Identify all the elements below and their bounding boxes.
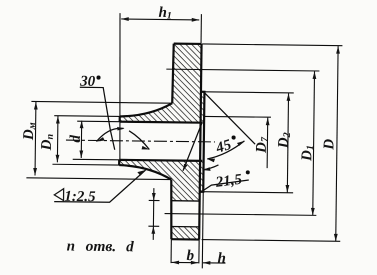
weld end face — [118, 116, 121, 165]
svg-text:30: 30 — [79, 74, 96, 90]
taper leader — [54, 169, 145, 203]
h1 left extension — [118, 13, 122, 162]
Dn top extension — [54, 115, 119, 118]
21.5 cone line — [183, 123, 202, 171]
D dim line — [336, 46, 338, 241]
d top extension — [77, 120, 119, 123]
plate top — [174, 43, 202, 46]
hub taper lower — [119, 165, 171, 180]
boss top extension — [204, 92, 293, 93]
flange section hatched body — [118, 43, 205, 240]
45 arc — [207, 140, 244, 159]
21.5 arc arrow — [202, 167, 210, 171]
b arrows — [172, 261, 180, 265]
thin lines — [25, 12, 343, 270]
h1 right extension — [200, 14, 202, 44]
svg-text:d: d — [68, 135, 84, 143]
D1 dim line — [313, 71, 315, 215]
b dim line — [172, 261, 199, 263]
h arrow — [203, 261, 211, 265]
plate bottom — [171, 238, 199, 241]
D top extension — [202, 44, 342, 46]
30 angle arc A1 — [96, 128, 123, 142]
arrowheads — [32, 16, 340, 266]
45 arc arrows — [207, 159, 215, 163]
boss bottom extension — [202, 192, 293, 193]
Dm dim line — [34, 102, 37, 175]
D2 dim line — [287, 93, 288, 192]
bolt hole top edge — [172, 200, 200, 202]
bolt hole bottom edge — [172, 226, 200, 228]
centerline — [66, 140, 215, 142]
Dn dim line — [56, 116, 59, 162]
d arrows — [80, 121, 84, 129]
d bottom extension — [73, 158, 119, 161]
d dim line — [80, 121, 82, 158]
30 leader — [79, 87, 115, 149]
svg-text:n: n — [67, 239, 76, 255]
Dm top extension — [31, 101, 172, 103]
svg-text:отв.: отв. — [86, 239, 117, 255]
svg-text:1:2.5: 1:2.5 — [64, 189, 96, 205]
hole d arrows — [152, 193, 156, 201]
b right ext — [198, 240, 200, 264]
bore top — [120, 122, 203, 123]
degree dots — [95, 76, 251, 175]
lower bolt axis — [165, 214, 317, 216]
Dn arrows — [56, 116, 60, 124]
plate right face — [199, 44, 201, 240]
bolt hole ticks — [148, 200, 159, 226]
Dn bottom extension — [52, 163, 119, 166]
D7 dim line — [266, 118, 269, 168]
taper symbol — [54, 189, 63, 201]
D arrows — [336, 46, 340, 54]
flange outline — [118, 43, 205, 240]
svg-text:D: D — [321, 139, 337, 151]
svg-text:b: b — [186, 248, 194, 264]
21.5 cone line arrowhead — [183, 164, 188, 172]
Dm bottom extension — [26, 178, 171, 180]
D bottom extension — [202, 240, 341, 242]
h1 arrows — [121, 17, 129, 21]
b left ext — [170, 239, 172, 263]
bore bottom — [119, 160, 202, 161]
D7 arrow — [266, 118, 270, 126]
45 construction line — [204, 93, 256, 144]
30 angle arc A2 — [129, 131, 150, 150]
Dm arrows — [34, 102, 38, 110]
svg-text:h: h — [217, 251, 226, 267]
bolt hole d dim line — [152, 188, 155, 240]
h1 dim line — [121, 18, 199, 21]
h right ext — [201, 192, 204, 269]
hub taper upper — [120, 103, 172, 118]
30 arc arrows — [96, 137, 104, 142]
plate left face — [171, 44, 174, 240]
cone extension D7 — [204, 115, 271, 118]
21.5 arc — [202, 165, 218, 170]
D2 arrows — [287, 93, 291, 101]
taper leader arrow — [137, 170, 145, 176]
upper bolt axis — [166, 69, 319, 71]
21.5 underline leader — [202, 179, 249, 192]
h dim line — [203, 262, 226, 264]
boss — [200, 92, 205, 192]
D1 arrows — [313, 71, 317, 79]
svg-text:d: d — [126, 239, 134, 255]
